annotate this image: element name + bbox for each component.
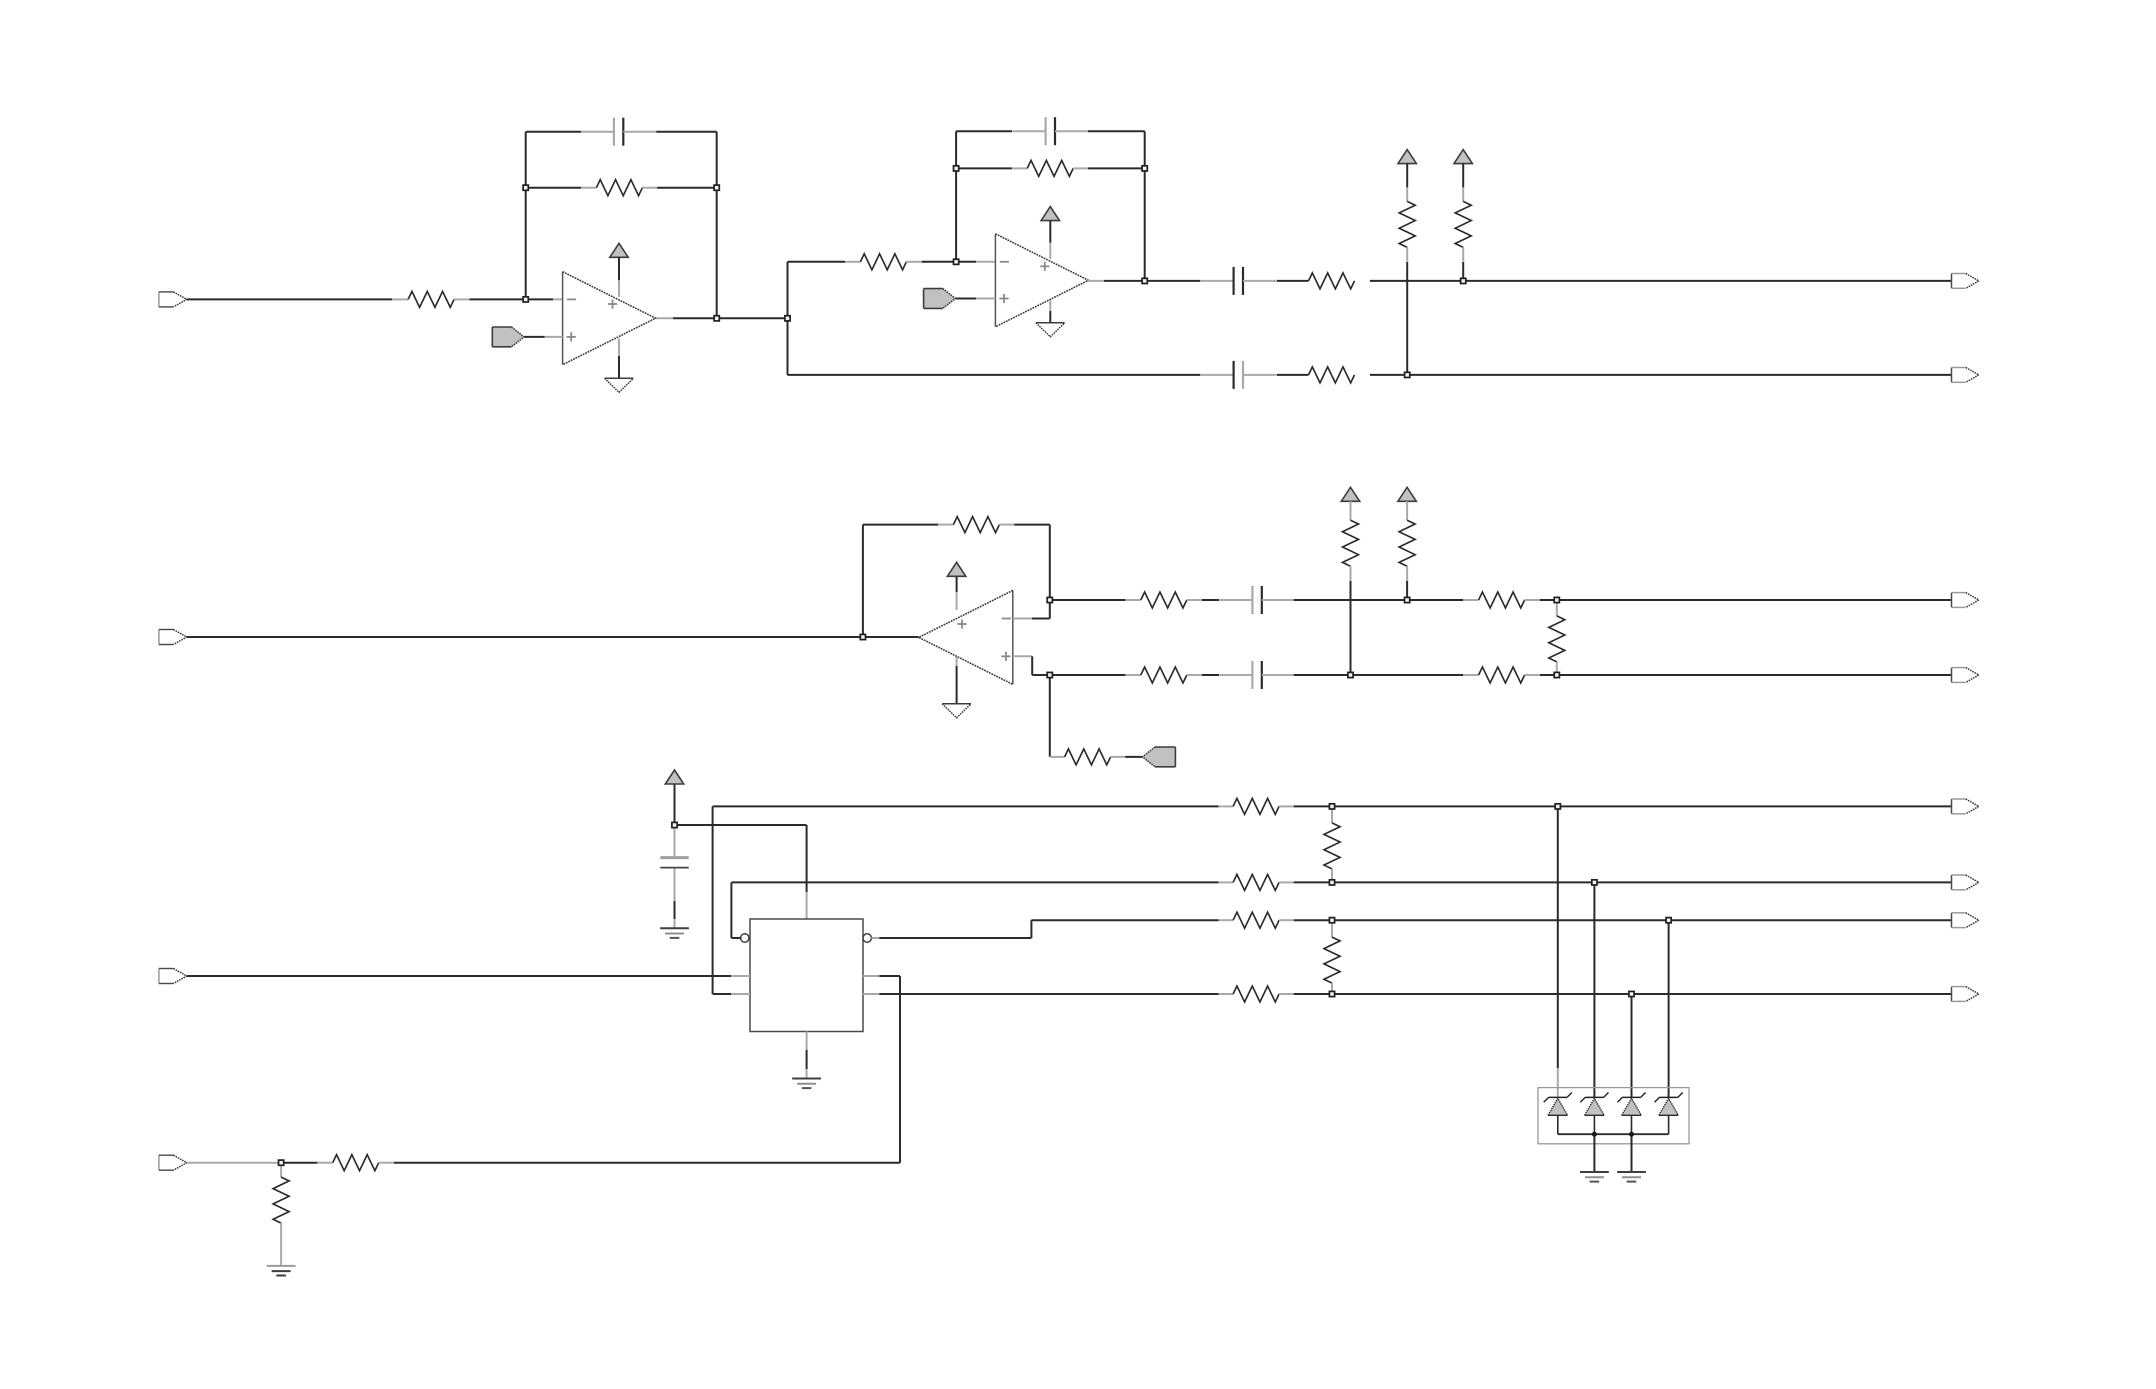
wire U3 - input to node E [1013, 600, 1050, 619]
IC U4 inverted output bubble (left) [741, 934, 749, 942]
wire RD down to mid top line [1406, 566, 1408, 600]
input connector J3 (IC input) [159, 969, 187, 984]
wire input to node H [187, 1162, 281, 1164]
wire VCC to RC [1350, 501, 1352, 520]
output connector OUT7 [1952, 913, 1979, 928]
wire U2 output to C3 [1145, 280, 1201, 282]
junction shunt bottom [1554, 672, 1559, 677]
junction dot bus-D3 [1629, 1132, 1634, 1137]
capacitor C3 (top output line) [1201, 267, 1276, 295]
U2 minus label [1000, 261, 1009, 263]
junction L3 shunt [1329, 918, 1334, 923]
wire node A to U1 - input [526, 298, 563, 300]
resistor R3 (U2 input) [845, 254, 922, 270]
junction pull-up B on top line [1461, 278, 1466, 283]
wire R5 to output OUT1 [1370, 280, 1952, 282]
wire node E to R8 [1050, 599, 1126, 601]
junction U2 feedback right [1142, 166, 1147, 171]
node E (U3 feedback node) [1047, 597, 1052, 602]
wire R8 to C5 [1202, 599, 1219, 601]
wire U1 output [656, 317, 787, 319]
wire feedback right vertical [716, 132, 718, 319]
junction pull-up A on bottom line [1405, 372, 1410, 377]
wire bus to ground 1 [1593, 1134, 1595, 1172]
wire L1 tap down to D1 [1557, 806, 1559, 1097]
wire C5 to R10 [1294, 599, 1463, 601]
wire IC right pin 994 to line L4 [863, 993, 1219, 995]
junction shunt top [1554, 597, 1559, 602]
wire input to IC left pin [187, 975, 750, 977]
resistor R15 (line L2) [1219, 874, 1294, 890]
U3 minus label [1002, 618, 1011, 620]
resistor R14 (line L1) [1219, 798, 1294, 814]
node D (U3 input junction) [860, 634, 865, 639]
wire C4 to R6 [1277, 374, 1309, 376]
wire C6 to R12 [1294, 674, 1463, 676]
wire IC left pin 994 to line L1 [713, 806, 1219, 994]
resistor R16 (line L3) [1219, 912, 1294, 928]
wire VCC to RA [1406, 164, 1408, 188]
wire IC bottom pin to ground [806, 1032, 808, 1079]
ground (R21, earth) [267, 1266, 296, 1276]
junction L1 diode tap [1555, 804, 1560, 809]
output connector OUT5 [1952, 799, 1979, 814]
U3 power plus label [957, 619, 966, 628]
wire top feedback branch right [656, 131, 716, 133]
ground (C7, earth) [660, 928, 689, 938]
resistor R10 (mid top series) [1463, 592, 1540, 608]
wire bus to ground 2 [1631, 1134, 1633, 1172]
VCC power arrow (mid pull-up RC) [1341, 487, 1359, 501]
wire RB down to top line [1462, 262, 1464, 281]
junction L4 diode tap [1629, 991, 1634, 996]
wire R9 to net tag [1125, 756, 1142, 758]
U1 minus label [567, 298, 576, 300]
wire U2 top feedback right [1088, 130, 1145, 132]
ground (U2, triangle) [1036, 300, 1065, 337]
capacitor C5 (mid top line) [1219, 586, 1294, 614]
wire IC right pin 976 to bottom net [394, 976, 900, 1163]
wire feedback left vertical [525, 132, 527, 300]
wire U3 feedback vertical right [1049, 525, 1051, 600]
output connector OUT2 [1952, 368, 1979, 383]
junction mid pull-up B [1405, 597, 1410, 602]
resistor R1 (series input resistor) [393, 291, 470, 307]
junction U2 output [1142, 278, 1147, 283]
junction L2 diode tap [1592, 880, 1597, 885]
VCC power arrow (U2) [1041, 207, 1059, 259]
resistor R13 (shunt between mid lines) [1549, 600, 1565, 675]
wire stage2 branch vertical [787, 262, 789, 375]
wire left bubble to line L2 [731, 882, 1218, 938]
resistor R9 (to net tag) [1050, 749, 1125, 765]
resistor R11 (mid bottom line) [1125, 667, 1202, 683]
wire U3 feedback vertical left [862, 525, 864, 637]
net tag VREF2 (U2 + input) [924, 289, 996, 309]
wire C3 to R5 [1277, 280, 1309, 282]
node G (IC supply node) [672, 822, 677, 827]
junction L2 shunt [1329, 880, 1334, 885]
TVS diode D2 [1580, 1093, 1608, 1135]
wire node C to U2 - input [956, 261, 995, 263]
TVS diode D1 [1544, 1093, 1572, 1135]
wire node F down to R9 [1049, 675, 1051, 757]
ground (diode array 1, earth) [1580, 1172, 1609, 1182]
junction L4 shunt [1329, 991, 1334, 996]
wire R10 to OUT3 [1540, 599, 1952, 601]
junction feedback left [523, 185, 528, 190]
resistor R6 (bottom output line) [1309, 367, 1355, 383]
output connector OUT1 [1952, 274, 1979, 289]
resistor R20 (series) [317, 1155, 394, 1171]
wire right bubble to line L3 [871, 920, 1218, 938]
input connector J4 (bottom input) [159, 1155, 187, 1170]
VCC power arrow (mid pull-up RD) [1398, 487, 1416, 501]
output connector OUT3 [1952, 593, 1979, 608]
capacitor C7 (decoupling) [660, 825, 688, 868]
wire branch bottom to C4 [788, 374, 1201, 376]
VCC power arrow (pull-up RB) [1454, 150, 1472, 164]
resistor RC (pull-up to mid bottom line) [1343, 520, 1359, 566]
wire L2 tap down to D2 [1593, 882, 1595, 1097]
resistor R7 (U3 feedback) [863, 517, 1050, 533]
resistor R4 (U2 feedback) [956, 160, 1145, 176]
junction U2 feedback left [954, 166, 959, 171]
wire R16 to OUT7 [1294, 919, 1952, 921]
resistor R5 (top output line) [1309, 273, 1355, 289]
VCC power arrow (IC supply) [665, 770, 683, 784]
resistor RA (pull-up to bottom line) [1399, 187, 1415, 261]
resistor R2 (U1 feedback) [526, 180, 717, 196]
node B (stage-2 branch junction) [785, 316, 790, 321]
IC U4 (body) [750, 919, 863, 1032]
U1 power plus label [608, 299, 617, 308]
VCC power arrow (pull-up RA) [1398, 150, 1416, 164]
wire node H to R20 [281, 1162, 317, 1164]
wire U2 output [1087, 280, 1144, 282]
input connector J2 (middle section input) [159, 630, 187, 645]
TVS diode D3 [1617, 1093, 1645, 1135]
resistor R8 (mid top line) [1125, 592, 1202, 608]
wire U3 + input to node F [1013, 656, 1050, 675]
wire R3 to U2 inverting node [922, 261, 956, 263]
resistor RB (pull-up to top line) [1455, 187, 1471, 261]
wire input to R1 [187, 298, 392, 300]
input connector J1 (top section input) [159, 292, 187, 307]
wire R12 to OUT4 [1540, 674, 1952, 676]
wire U2 feedback left vertical [955, 131, 957, 262]
U2 power plus label [1040, 262, 1049, 271]
junction L1 shunt [1329, 804, 1334, 809]
TVS diode array box [1538, 1088, 1689, 1144]
op-amp U3 (mirrored) [919, 590, 1013, 684]
node H (divider junction) [279, 1160, 284, 1165]
U1 plus label [567, 332, 576, 341]
node C (U2 inverting input junction) [954, 259, 959, 264]
ground (diode array 2, earth) [1617, 1172, 1646, 1182]
wire R6 to output OUT2 [1370, 374, 1952, 376]
wire input to U3 node [187, 636, 919, 638]
resistor R21 (to ground) [273, 1163, 289, 1266]
ground (U1, triangle) [605, 339, 634, 393]
resistor R18 (shunt L1-L2) [1324, 806, 1340, 882]
wire L4 tap down to D3 [1631, 994, 1633, 1097]
wire R15 to OUT6 [1294, 881, 1952, 883]
junction feedback right [714, 185, 719, 190]
wire branch to R3 [788, 261, 846, 263]
wire RA down to bottom line [1406, 262, 1408, 375]
capacitor C2 (U2 feedback) [1013, 117, 1088, 145]
op-amp U2 [995, 234, 1088, 327]
VCC power arrow (U3) [947, 562, 965, 610]
U3 plus label [1001, 652, 1010, 661]
junction mid pull-up A [1348, 672, 1353, 677]
wire VCC to RB [1462, 164, 1464, 188]
TVS diode D4 [1655, 1093, 1683, 1135]
output connector OUT6 [1952, 875, 1979, 890]
capacitor C6 (mid bottom line) [1219, 661, 1294, 689]
junction U1 output / feedback [714, 316, 719, 321]
capacitor C4 (bottom output line) [1201, 361, 1276, 389]
wire top feedback branch left [526, 131, 581, 133]
wire diode common bus [1558, 1133, 1669, 1135]
resistor R12 (mid bottom series) [1463, 667, 1540, 683]
U2 plus label [999, 294, 1008, 303]
wire U2 feedback right vertical [1144, 131, 1146, 281]
resistor RD (pull-up to mid top line) [1399, 520, 1415, 566]
wire node G to IC VCC pin [675, 825, 807, 919]
wire R11 to C6 [1202, 674, 1219, 676]
VCC power arrow (U1) [610, 243, 628, 297]
node A (U1 inverting input junction) [523, 297, 528, 302]
wire R17 to OUT8 [1294, 993, 1952, 995]
output connector OUT8 [1952, 987, 1979, 1002]
wire U2 top feedback left [956, 130, 1012, 132]
output connector OUT4 [1952, 668, 1979, 683]
junction dot bus-D2 [1592, 1132, 1597, 1137]
wire R14 to OUT5 [1294, 805, 1952, 807]
resistor R17 (line L4) [1219, 986, 1294, 1002]
junction L3 diode tap [1666, 918, 1671, 923]
wire C7 to ground [674, 869, 676, 928]
capacitor C1 (U1 feedback) [581, 118, 656, 146]
wire node F to R11 [1050, 674, 1126, 676]
wire VCC to node G [674, 785, 676, 826]
ground (U3, triangle) [942, 657, 971, 718]
wire RC down to mid bottom line [1350, 566, 1352, 675]
wire R1 to inverting node [470, 298, 526, 300]
wire VCC to RD [1406, 501, 1408, 520]
ground (IC, earth) [792, 1079, 821, 1089]
resistor R19 (shunt L3-L4) [1324, 920, 1340, 994]
IC U4 inverted output bubble (right) [863, 934, 871, 942]
op-amp U1 [563, 272, 656, 365]
wire L3 tap down to D4 [1668, 920, 1670, 1097]
node F (U3 + node) [1047, 672, 1052, 677]
net tag VREF3 (left-pointing) [1142, 747, 1175, 767]
net tag VREF1 (U1 + input) [492, 327, 562, 347]
